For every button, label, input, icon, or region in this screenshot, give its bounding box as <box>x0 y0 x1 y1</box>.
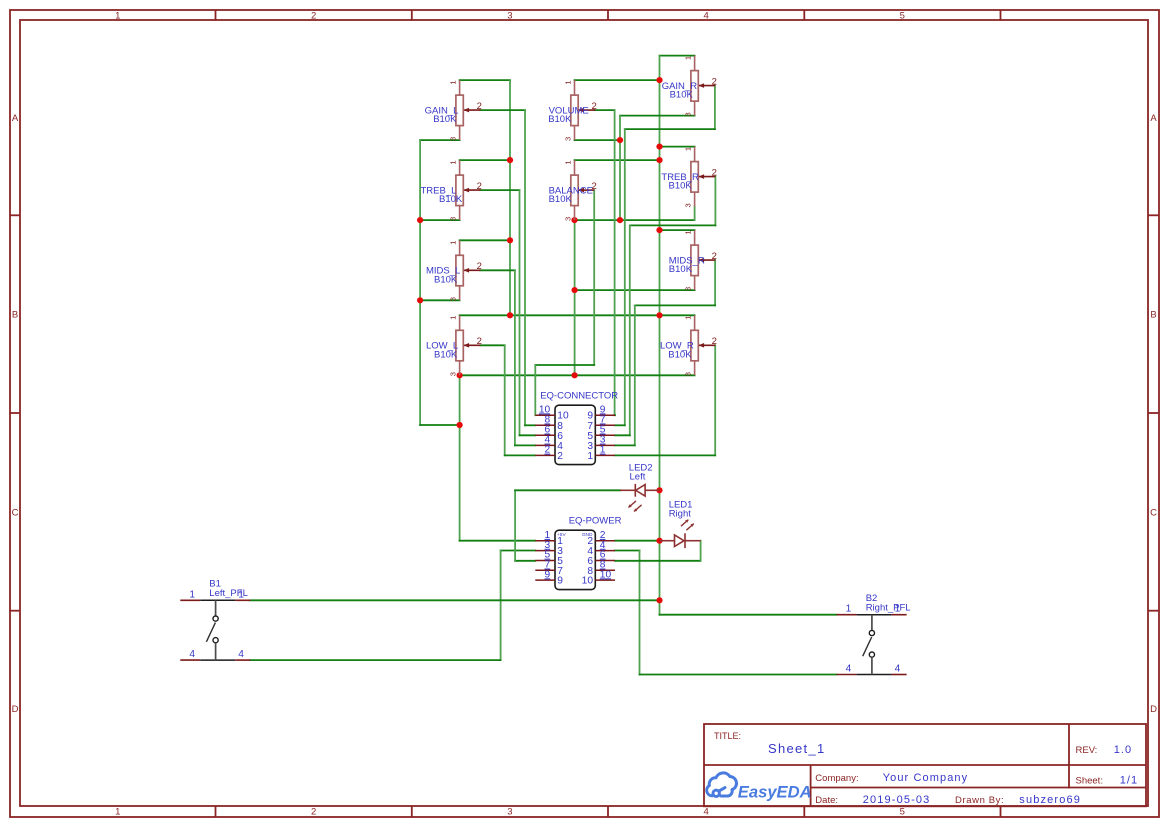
svg-text:1: 1 <box>564 80 573 84</box>
svg-text:4: 4 <box>238 649 244 660</box>
svg-text:2: 2 <box>311 807 316 818</box>
svg-text:B10K: B10K <box>439 194 463 205</box>
svg-text:4: 4 <box>895 664 901 675</box>
svg-text:4: 4 <box>704 807 709 818</box>
svg-text:3: 3 <box>507 807 512 818</box>
svg-text:B: B <box>12 310 18 321</box>
svg-text:1: 1 <box>564 160 573 164</box>
svg-text:1: 1 <box>684 147 693 151</box>
svg-text:1: 1 <box>238 589 244 600</box>
svg-text:2: 2 <box>477 101 482 112</box>
svg-text:Your Company: Your Company <box>883 772 969 784</box>
svg-text:Right_PFL: Right_PFL <box>866 602 911 613</box>
svg-text:2: 2 <box>311 10 316 21</box>
svg-text:GND: GND <box>582 532 593 538</box>
svg-text:2: 2 <box>477 261 482 272</box>
svg-text:Sheet:: Sheet: <box>1076 775 1103 786</box>
svg-text:1: 1 <box>684 316 693 320</box>
svg-text:2: 2 <box>712 167 717 178</box>
svg-text:1: 1 <box>449 80 458 84</box>
svg-text:3: 3 <box>684 203 693 207</box>
svg-text:B10K: B10K <box>670 90 694 101</box>
svg-text:2: 2 <box>477 181 482 192</box>
svg-text:Right: Right <box>669 508 692 519</box>
svg-text:1: 1 <box>587 451 593 462</box>
svg-text:3: 3 <box>684 112 693 116</box>
svg-text:4: 4 <box>846 664 852 675</box>
svg-text:1: 1 <box>895 604 901 615</box>
svg-text:2: 2 <box>592 101 597 112</box>
svg-text:3: 3 <box>449 297 458 301</box>
svg-text:1/1: 1/1 <box>1120 774 1139 786</box>
svg-text:3: 3 <box>564 217 573 221</box>
svg-text:2019-05-03: 2019-05-03 <box>863 794 931 806</box>
svg-text:EQ-CONNECTOR: EQ-CONNECTOR <box>540 390 618 401</box>
svg-text:+5V: +5V <box>557 532 566 538</box>
svg-text:3: 3 <box>449 372 458 376</box>
svg-text:B10K: B10K <box>669 181 693 192</box>
svg-text:TITLE:: TITLE: <box>714 731 741 741</box>
svg-text:B10K: B10K <box>433 114 457 125</box>
svg-text:1: 1 <box>449 160 458 164</box>
svg-text:2: 2 <box>557 451 563 462</box>
svg-text:D: D <box>1150 704 1157 715</box>
svg-text:Company:: Company: <box>815 773 858 784</box>
svg-text:EasyEDA: EasyEDA <box>738 782 812 801</box>
svg-text:5: 5 <box>900 807 905 818</box>
svg-text:1: 1 <box>684 56 693 60</box>
svg-text:1: 1 <box>449 316 458 320</box>
svg-text:Date:: Date: <box>815 795 838 806</box>
svg-text:10: 10 <box>582 576 594 587</box>
svg-text:3: 3 <box>564 137 573 141</box>
svg-text:D: D <box>12 704 19 715</box>
svg-text:1: 1 <box>189 589 195 600</box>
svg-text:1: 1 <box>115 10 120 21</box>
svg-text:2: 2 <box>712 251 717 262</box>
svg-text:Left: Left <box>630 471 646 482</box>
svg-text:2: 2 <box>712 76 717 87</box>
svg-text:B10K: B10K <box>548 114 572 125</box>
svg-text:REV:: REV: <box>1076 745 1098 756</box>
svg-text:B10K: B10K <box>434 349 458 360</box>
svg-text:1: 1 <box>684 230 693 234</box>
svg-text:4: 4 <box>189 649 195 660</box>
svg-text:2: 2 <box>712 336 717 347</box>
svg-text:1.0: 1.0 <box>1114 744 1133 756</box>
svg-text:C: C <box>12 507 19 518</box>
svg-text:3: 3 <box>507 10 512 21</box>
svg-text:subzero69: subzero69 <box>1019 794 1081 806</box>
svg-text:1: 1 <box>449 241 458 245</box>
svg-text:B10K: B10K <box>434 274 458 285</box>
svg-text:2: 2 <box>477 336 482 347</box>
svg-text:1: 1 <box>115 807 120 818</box>
svg-text:5: 5 <box>900 10 905 21</box>
svg-text:3: 3 <box>684 372 693 376</box>
svg-text:B10K: B10K <box>669 264 693 275</box>
svg-text:C: C <box>1150 507 1157 518</box>
svg-text:3: 3 <box>449 217 458 221</box>
svg-text:Sheet_1: Sheet_1 <box>768 741 826 756</box>
svg-text:9: 9 <box>557 576 563 587</box>
svg-text:EQ-POWER: EQ-POWER <box>569 515 622 526</box>
svg-text:1: 1 <box>846 604 852 615</box>
svg-text:4: 4 <box>704 10 709 21</box>
svg-text:3: 3 <box>449 137 458 141</box>
svg-text:B10K: B10K <box>549 194 573 205</box>
svg-text:A: A <box>1150 113 1157 124</box>
svg-text:B10K: B10K <box>668 349 692 360</box>
svg-text:A: A <box>12 113 19 124</box>
svg-text:Drawn By:: Drawn By: <box>955 795 1004 806</box>
svg-text:3: 3 <box>684 287 693 291</box>
svg-text:B: B <box>1150 310 1156 321</box>
